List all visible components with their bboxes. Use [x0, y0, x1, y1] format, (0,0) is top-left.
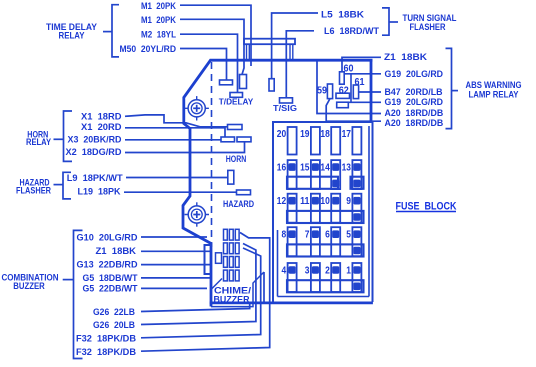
- svg-text:13: 13: [342, 161, 352, 173]
- svg-text:59: 59: [317, 86, 327, 97]
- svg-text:Z1 18BK: Z1 18BK: [384, 52, 427, 63]
- svg-text:9: 9: [346, 195, 351, 207]
- svg-text:14: 14: [320, 161, 330, 173]
- svg-text:L6 18RD/WT: L6 18RD/WT: [324, 26, 379, 37]
- svg-text:5: 5: [346, 229, 351, 241]
- svg-text:X1 18RD: X1 18RD: [81, 111, 122, 122]
- svg-text:L19 18PK: L19 18PK: [78, 186, 121, 197]
- svg-text:2: 2: [325, 264, 330, 276]
- svg-text:M50 20YL/RD: M50 20YL/RD: [120, 44, 177, 55]
- svg-text:T/SIG: T/SIG: [273, 103, 297, 113]
- svg-text:6: 6: [325, 229, 330, 241]
- svg-text:FLASHER: FLASHER: [410, 22, 446, 33]
- svg-text:G19 20LG/RD: G19 20LG/RD: [385, 97, 444, 108]
- svg-text:X1 20RD: X1 20RD: [81, 122, 122, 133]
- svg-text:LAMP RELAY: LAMP RELAY: [469, 89, 520, 100]
- svg-text:M1 20PK: M1 20PK: [141, 15, 176, 26]
- svg-text:7: 7: [305, 229, 310, 241]
- svg-text:F32 18PK/DB: F32 18PK/DB: [76, 334, 136, 345]
- svg-text:FLASHER: FLASHER: [16, 186, 51, 197]
- svg-text:G26 20LB: G26 20LB: [93, 320, 135, 331]
- svg-text:G26 22LB: G26 22LB: [93, 307, 135, 318]
- svg-text:12: 12: [277, 195, 287, 207]
- svg-text:1: 1: [346, 264, 351, 276]
- svg-text:G19 20LG/RD: G19 20LG/RD: [385, 69, 444, 80]
- svg-text:BUZZER: BUZZER: [214, 293, 250, 304]
- svg-text:4: 4: [282, 264, 287, 276]
- svg-text:19: 19: [300, 128, 310, 140]
- svg-text:61: 61: [355, 77, 365, 88]
- svg-text:L9 18PK/WT: L9 18PK/WT: [67, 173, 123, 184]
- svg-text:8: 8: [282, 229, 287, 241]
- svg-text:15: 15: [300, 161, 310, 173]
- svg-text:M1 20PK: M1 20PK: [141, 1, 176, 12]
- svg-text:G5 22DB/WT: G5 22DB/WT: [83, 283, 138, 294]
- svg-text:T/DELAY: T/DELAY: [219, 97, 254, 107]
- svg-text:17: 17: [342, 128, 352, 140]
- svg-text:G13 22DB/RD: G13 22DB/RD: [77, 260, 138, 271]
- svg-text:F32 18PK/DB: F32 18PK/DB: [76, 347, 136, 358]
- svg-text:X3 20BK/RD: X3 20BK/RD: [68, 134, 122, 145]
- svg-text:16: 16: [277, 161, 287, 173]
- svg-text:HAZARD: HAZARD: [223, 199, 254, 209]
- svg-text:62: 62: [339, 86, 349, 97]
- svg-text:FUSE BLOCK: FUSE BLOCK: [396, 200, 457, 212]
- svg-text:L5 18BK: L5 18BK: [321, 9, 364, 20]
- svg-text:3: 3: [305, 264, 310, 276]
- svg-text:11: 11: [300, 195, 310, 207]
- svg-text:Z1 18BK: Z1 18BK: [96, 246, 137, 257]
- svg-text:G10 20LG/RD: G10 20LG/RD: [77, 232, 138, 243]
- svg-text:RELAY: RELAY: [59, 31, 86, 42]
- svg-text:HORN: HORN: [226, 154, 247, 164]
- svg-text:10: 10: [320, 195, 330, 207]
- svg-text:60: 60: [344, 64, 354, 75]
- svg-text:BUZZER: BUZZER: [13, 281, 45, 292]
- svg-text:18: 18: [320, 128, 330, 140]
- svg-text:RELAY: RELAY: [26, 137, 52, 148]
- svg-text:20: 20: [277, 128, 287, 140]
- svg-text:X2 18DG/RD: X2 18DG/RD: [66, 147, 122, 158]
- svg-text:M2 18YL: M2 18YL: [141, 30, 176, 41]
- svg-text:A20 18RD/DB: A20 18RD/DB: [385, 118, 444, 129]
- svg-text:G5 18DB/WT: G5 18DB/WT: [83, 273, 138, 284]
